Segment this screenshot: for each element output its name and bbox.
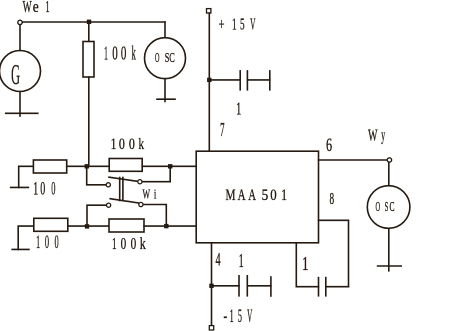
resistor R4 100 xyxy=(34,218,68,231)
svg-text:S: S xyxy=(385,199,389,215)
wire from top wire down to resistor R1 xyxy=(88,22,90,42)
svg-text:0: 0 xyxy=(119,136,125,153)
junction on top wire xyxy=(87,20,91,24)
svg-text:1: 1 xyxy=(230,306,234,327)
capacitor C2 value 1 xyxy=(239,250,244,272)
svg-text:0: 0 xyxy=(45,232,49,253)
svg-text:5: 5 xyxy=(240,15,245,34)
resistor R3 100k row1 xyxy=(109,159,142,172)
wire row2 ground riser xyxy=(18,226,34,249)
svg-text:0: 0 xyxy=(40,179,45,200)
wire oscilloscope 1 drop xyxy=(164,22,166,38)
pin 6 wire to Wy xyxy=(319,159,388,161)
capacitor C2 plates xyxy=(238,276,240,296)
wire bottom-right contact down to row2 xyxy=(143,205,166,224)
capacitor C3 value 1 xyxy=(302,253,309,275)
svg-text:+: + xyxy=(218,15,224,34)
svg-text:0: 0 xyxy=(51,179,55,200)
capacitor C1 end bar xyxy=(269,71,271,90)
svg-text:i: i xyxy=(154,186,157,201)
capacitor C1 plates xyxy=(239,71,241,90)
svg-text:4: 4 xyxy=(215,249,220,270)
svg-text:1: 1 xyxy=(112,234,117,253)
svg-text:0: 0 xyxy=(54,232,58,253)
svg-text:1: 1 xyxy=(36,232,40,253)
wire Wy down to OSC2 xyxy=(388,162,390,186)
wire top-right contact up to row1 xyxy=(142,168,170,182)
pin 6 label xyxy=(326,135,332,156)
pin 4 wire down to -15V xyxy=(211,243,213,326)
junction row2 left xyxy=(85,224,89,228)
wire OSC2 to ground xyxy=(388,228,390,270)
pin 8 wire xyxy=(319,220,349,286)
wire +15V down to pin 7 xyxy=(208,13,210,151)
wire bottom-left contact down to row2 xyxy=(87,205,106,224)
switch Wi label xyxy=(143,186,157,201)
wire junction down to switch top-left contact xyxy=(87,168,106,185)
wire row1 ground riser xyxy=(19,166,34,187)
wire from R1 down to row1 xyxy=(88,77,90,166)
svg-text:y: y xyxy=(381,126,385,145)
svg-text:0: 0 xyxy=(121,234,127,253)
junction on +15V line xyxy=(207,78,211,82)
svg-text:0: 0 xyxy=(121,42,127,64)
wire R4 to R5 xyxy=(68,225,109,227)
oscilloscope OSC1 xyxy=(145,38,186,79)
node Wy label xyxy=(368,126,385,145)
wire top horizontal from We1 to oscilloscope xyxy=(23,21,166,23)
svg-text:W: W xyxy=(143,186,151,201)
svg-text:6: 6 xyxy=(326,135,332,156)
ground of generator xyxy=(6,112,38,114)
wire from We1 down to generator xyxy=(19,25,21,51)
capacitor C1 right wire xyxy=(247,79,269,81)
wire generator to ground xyxy=(19,92,21,117)
node We1 label xyxy=(23,0,50,16)
capacitor C1 value 1 xyxy=(236,98,241,118)
pin 4 label xyxy=(215,249,220,270)
svg-text:0: 0 xyxy=(129,136,135,153)
svg-text:1: 1 xyxy=(46,0,50,16)
svg-text:1: 1 xyxy=(33,179,38,200)
svg-text:5: 5 xyxy=(262,187,269,204)
svg-text:M: M xyxy=(226,187,236,204)
svg-text:A: A xyxy=(248,187,256,204)
svg-text:8: 8 xyxy=(330,189,335,208)
svg-text:O: O xyxy=(155,51,159,66)
svg-text:V: V xyxy=(247,306,252,327)
svg-text:W: W xyxy=(23,0,32,16)
junction row2 right xyxy=(164,224,168,228)
svg-text:k: k xyxy=(132,42,136,64)
resistor R1 100k vertical xyxy=(83,42,94,78)
svg-text:1: 1 xyxy=(236,98,241,118)
svg-text:V: V xyxy=(250,15,255,34)
switch Wi bottom-left contact xyxy=(107,203,111,207)
junction on -15V line xyxy=(209,284,213,288)
ground of row1 xyxy=(11,186,29,188)
terminal -15V xyxy=(209,326,213,330)
svg-text:1: 1 xyxy=(281,187,287,204)
wire bottom pin of box down xyxy=(296,243,318,287)
svg-text:C: C xyxy=(169,51,175,66)
oscilloscope OSC2 xyxy=(367,186,410,229)
svg-text:1: 1 xyxy=(239,250,244,272)
svg-text:1: 1 xyxy=(232,15,237,34)
svg-text:G: G xyxy=(11,59,20,91)
svg-text:0: 0 xyxy=(131,234,137,253)
resistor R5 100k row2 xyxy=(109,219,144,232)
node Wy terminal xyxy=(387,158,391,162)
node We1 terminal xyxy=(18,20,22,24)
svg-text:5: 5 xyxy=(238,306,242,327)
junction row1 right xyxy=(168,164,172,168)
op-amp U1 MAA501 box xyxy=(196,151,318,243)
pin 8 label xyxy=(330,189,335,208)
switch Wi bottom-right contact xyxy=(139,202,143,206)
svg-text:-: - xyxy=(223,306,227,327)
capacitor C2 wire from -15V line xyxy=(212,285,240,287)
svg-text:e: e xyxy=(33,0,39,16)
svg-text:7: 7 xyxy=(220,119,225,141)
ground of OSC1 xyxy=(157,98,175,100)
svg-text:0: 0 xyxy=(112,42,118,64)
switch Wi top-right contact xyxy=(138,180,142,184)
wire OSC1 to ground xyxy=(164,79,166,102)
ground of row2 xyxy=(12,248,29,250)
switch Wi top lever xyxy=(109,177,138,181)
switch Wi bottom lever xyxy=(110,199,138,203)
svg-text:k: k xyxy=(140,234,146,253)
capacitor C3 plates xyxy=(318,278,320,296)
svg-text:C: C xyxy=(389,199,394,215)
junction row1 left xyxy=(85,164,89,168)
ground of OSC2 xyxy=(378,265,402,267)
svg-text:1: 1 xyxy=(302,253,309,275)
wire R2 to R3 xyxy=(67,165,110,167)
switch Wi top-left contact xyxy=(106,183,110,187)
generator G xyxy=(0,51,41,92)
svg-text:O: O xyxy=(376,199,381,215)
resistor R2 100 xyxy=(33,160,66,173)
capacitor C3 right wire to pin 8 loop xyxy=(326,286,349,288)
svg-text:1: 1 xyxy=(104,42,108,64)
capacitor C2 end bar xyxy=(270,277,272,296)
svg-text:1: 1 xyxy=(111,136,117,153)
capacitor C2 right wire xyxy=(247,285,271,287)
switch Wi coupling bars xyxy=(119,178,121,201)
wire R3 to box xyxy=(142,165,196,167)
pin 7 label xyxy=(220,119,225,141)
svg-text:0: 0 xyxy=(270,187,276,204)
svg-text:W: W xyxy=(368,126,378,145)
svg-text:A: A xyxy=(238,187,246,204)
capacitor C1 wire from +15V line xyxy=(209,79,240,81)
svg-text:k: k xyxy=(139,136,145,153)
wire R5 to box xyxy=(144,225,196,227)
terminal +15V xyxy=(207,9,211,13)
